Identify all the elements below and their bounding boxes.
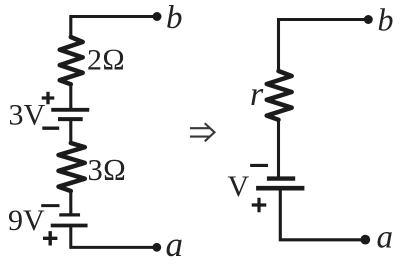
battery V negative short plate	[269, 176, 293, 180]
svg-text:b: b	[166, 0, 183, 36]
node b (right)	[364, 15, 373, 24]
battery V positive long plate	[258, 186, 302, 191]
battery B2 9V negative short plate	[61, 213, 79, 216]
wire: right circuit top wire from corner down to resistor	[279, 20, 369, 72]
wire: resistor r to battery V	[277, 120, 280, 177]
svg-text:a: a	[377, 220, 394, 256]
svg-text:3Ω: 3Ω	[88, 153, 127, 187]
resistor r zigzag	[267, 71, 292, 120]
resistor R2 3-ohm zigzag	[59, 143, 85, 191]
svg-text:a: a	[166, 225, 184, 264]
wire: right circuit bottom wire from battery V to node a	[280, 188, 365, 240]
battery B2 9V positive long plate	[53, 224, 86, 228]
plus sign of 9V battery	[43, 231, 57, 245]
node a (left)	[152, 243, 161, 252]
svg-text:b: b	[378, 1, 394, 37]
battery B1 3V negative short plate	[60, 117, 81, 121]
minus sign of 9V battery	[43, 204, 58, 207]
svg-text:V: V	[228, 170, 250, 203]
plus sign of battery V	[252, 198, 267, 212]
wire: 2-ohm resistor to 3V battery	[69, 84, 72, 108]
wire: left circuit bottom wire from 9V battery to node a	[71, 226, 157, 248]
node b (left)	[153, 12, 162, 21]
wire: 3-ohm resistor to 9V battery	[69, 191, 72, 213]
minus sign of 3V battery	[44, 126, 58, 129]
node a (right)	[360, 235, 370, 245]
minus sign of battery V	[252, 164, 267, 167]
wire: left circuit top wire from corner down to resistor	[71, 17, 157, 38]
wire: 3V battery to 3-ohm resistor	[69, 119, 72, 143]
plus sign of 3V battery	[42, 92, 55, 105]
battery B1 3V positive long plate	[53, 108, 87, 112]
implies arrow between circuits	[191, 124, 215, 141]
svg-text:3V: 3V	[9, 99, 46, 132]
svg-text:2Ω: 2Ω	[87, 44, 125, 77]
svg-text:r: r	[250, 76, 264, 113]
resistor R1 2-ohm zigzag	[60, 37, 83, 84]
svg-text:9V: 9V	[8, 204, 45, 237]
